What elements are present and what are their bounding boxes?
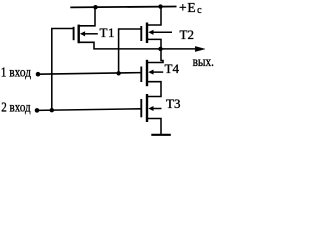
wire: input 2 line [37,109,141,111]
junction dot input2 riser [50,108,54,112]
wire: output node down to T4 drain [147,49,163,63]
junction dot output node [158,47,162,51]
svg-text:Т3: Т3 [166,96,180,111]
ground [151,134,171,136]
svg-text:2 вход: 2 вход [1,99,31,114]
wire: riser input2 to T1 gate [52,29,74,111]
wire: +Ec supply rail [70,6,176,9]
svg-text:Т1: Т1 [100,25,115,40]
output arrowhead [195,46,205,51]
wire: T4 source to T3 drain [147,82,161,97]
svg-text:Т4: Т4 [165,61,180,76]
wire: T1 source to output node [79,42,196,49]
wire: input 1 line [38,73,141,75]
svg-text:1 вход: 1 вход [1,64,31,79]
wire: T2 source down to output node [147,39,161,49]
terminal dot input 2 [35,108,40,113]
wire: T3 source to ground [147,119,161,135]
junction dot on rail at T1 [93,5,97,9]
svg-text:Т2: Т2 [180,27,194,42]
transistor T4 (n-channel MOSFET) [141,60,163,86]
junction dot input1 riser [116,71,120,75]
transistor T1 (p-channel MOSFET) [74,25,98,44]
wire: riser input1 to T2 gate [119,29,141,73]
transistor T2 (p-channel MOSFET) [141,23,172,44]
wire: rail to T1 drain [79,7,96,26]
wire: rail to T2 drain [147,7,161,25]
terminal dot input 1 [36,72,41,77]
transistor T3 (n-channel MOSFET) [141,94,161,122]
svg-text:вых.: вых. [193,55,214,70]
junction dot on rail at T2 [158,4,162,8]
